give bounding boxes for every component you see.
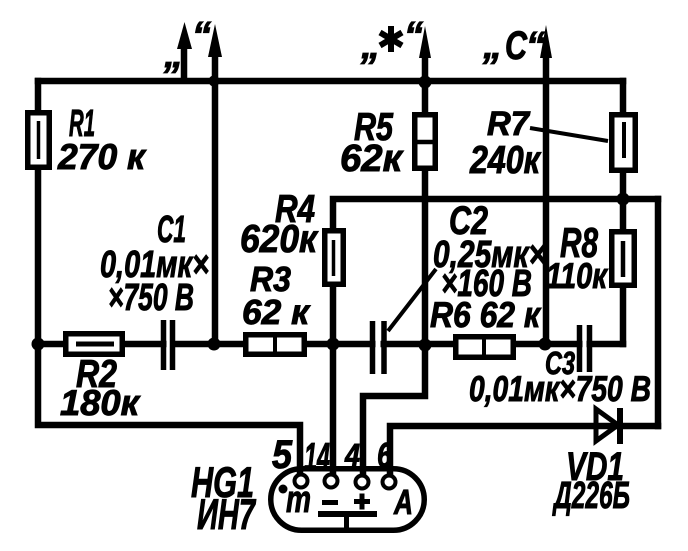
terminal arrow 1 head [177,22,192,49]
svg-text:“: “ [526,25,545,67]
svg-text:“: “ [192,15,211,57]
capacitor C3 gap [583,330,587,358]
capacitor C2 plates [373,321,385,374]
svg-text:„: „ [360,25,380,67]
svg-text:„: „ [482,25,502,67]
tube cathode bar [318,511,377,517]
resistor R6 body [456,337,514,358]
svg-text:A: A [393,483,413,522]
tube minus electrode [322,500,338,505]
diode VD1 [596,409,618,441]
indicator tube HG1 outline [271,469,425,531]
svg-text:620к: 620к [240,218,319,261]
svg-text:180к: 180к [60,382,141,423]
resistor R2 body [66,334,123,355]
junction node dots [209,76,220,87]
svg-text:110к: 110к [546,255,608,296]
tube index dot [279,485,288,494]
resistor R7 body [612,115,636,171]
wire lower-left to pin 5 [38,344,300,476]
star symbol [380,26,402,52]
svg-text:m: m [286,479,311,521]
wire pin 6 to diode anode [390,426,658,476]
resistor R4 body [325,231,344,285]
svg-text:R7: R7 [487,105,531,143]
wire C line [543,55,550,344]
svg-text:4: 4 [344,437,360,473]
capacitor C1 plates [164,320,173,370]
wire top bus [38,78,623,85]
tube pin circle 5 [295,475,308,488]
wire arrow1 shaft [181,46,188,80]
pointer line R7 [530,128,608,141]
capacitor C3 plates [580,325,590,372]
svg-text:0,01мк×750 В: 0,01мк×750 В [469,368,651,409]
tube plus electrode [354,494,370,510]
svg-text:ИН7: ИН7 [197,491,256,539]
wire R7 branch [620,81,627,199]
svg-text:“: “ [404,15,423,57]
tube cathode stub [344,514,349,531]
wire R8 branch (main bus corner up to second bus) [620,199,627,344]
wire main middle bus [38,341,623,348]
svg-text:„: „ [163,34,183,76]
svg-text:6: 6 [377,436,392,475]
pointer line C2 [388,269,436,331]
svg-text:C: C [505,24,528,68]
capacitor C2 gap [376,330,381,358]
svg-text:270 к: 270 к [57,136,147,177]
terminal arrow star head [419,26,431,58]
svg-text:14: 14 [304,436,330,479]
resistor R5 body [415,115,436,169]
svg-text:5: 5 [272,433,293,477]
wire second bus with R4 drop to pin 14 [333,199,658,476]
svg-text:×750 В: ×750 В [108,277,194,319]
svg-text:240к: 240к [469,139,542,182]
wire star line through R5 down to pin 4 jog [363,55,425,476]
tube pin circle 4 [356,476,369,489]
resistor R1 body [28,113,50,168]
resistor R3 body [246,335,305,355]
wire right vertical to diode [655,199,662,426]
tube pin circle 14 [325,475,338,488]
tube pin circle 6 [383,476,396,489]
terminal arrow C head [540,25,552,58]
resistor R8 body [612,232,635,286]
svg-text:62к: 62к [340,138,404,180]
svg-text:62 к: 62 к [242,293,311,332]
wire left vertical R1 branch [35,81,42,344]
terminal arrow 2 head and shaft [212,52,219,344]
svg-text:Д226Б: Д226Б [552,475,630,517]
capacitor C1 gap [167,330,171,358]
svg-text:R6 62 к: R6 62 к [430,294,542,335]
